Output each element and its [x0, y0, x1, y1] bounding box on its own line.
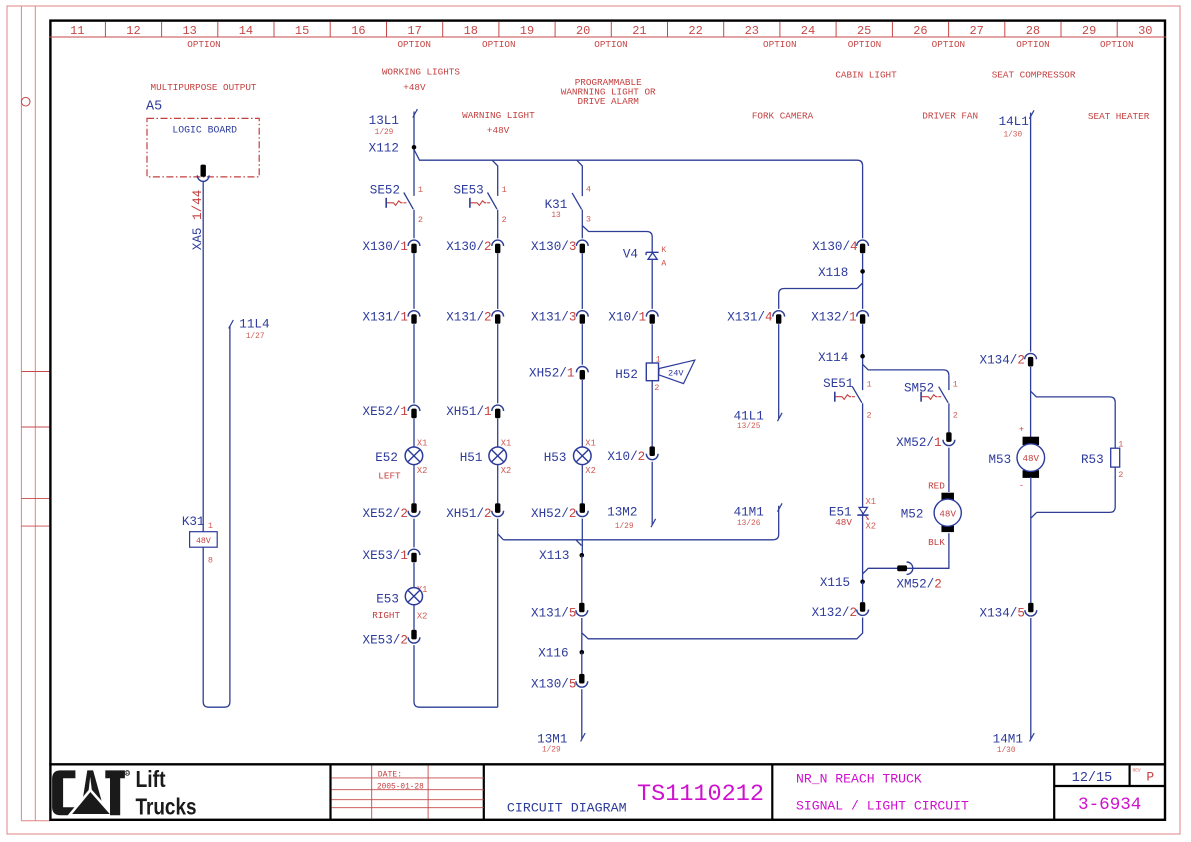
node X115 [860, 580, 865, 585]
logic board A5 outline [147, 118, 259, 176]
svg-text:X112: X112 [369, 142, 399, 156]
date table row line 2 [332, 789, 484, 791]
svg-text:A: A [661, 259, 667, 269]
svg-text:XM52/2: XM52/2 [896, 577, 941, 591]
fold mark 4 [21, 525, 49, 527]
wire R53 return [1037, 467, 1116, 512]
svg-text:19: 19 [520, 24, 534, 38]
svg-text:X1: X1 [501, 438, 512, 448]
wire X114 branch to SM52 [863, 364, 949, 375]
svg-text:14M1: 14M1 [993, 732, 1023, 746]
svg-text:27: 27 [969, 24, 983, 38]
title block top border [49, 763, 1166, 765]
registration hole [21, 97, 30, 106]
svg-text:23: 23 [745, 24, 759, 38]
svg-text:X113: X113 [539, 549, 569, 563]
svg-text:CIRCUIT DIAGRAM: CIRCUIT DIAGRAM [507, 800, 627, 815]
ruler base line [49, 36, 1166, 38]
svg-text:OPTION: OPTION [848, 39, 881, 50]
svg-text:RED: RED [928, 480, 945, 491]
svg-text:H51: H51 [460, 451, 483, 465]
svg-text:3-6934: 3-6934 [1078, 795, 1141, 815]
svg-text:XE52/1: XE52/1 [363, 405, 408, 419]
connector X130/4 [857, 240, 869, 253]
svg-text:R53: R53 [1081, 453, 1104, 467]
svg-text:22: 22 [688, 24, 702, 38]
node X113 [580, 553, 585, 558]
ruler column numbers 11-30 [70, 24, 1152, 38]
svg-text:OPTION: OPTION [1100, 39, 1133, 50]
wire X112 branch to cabin light column [414, 150, 863, 166]
connector XH52/2 [576, 503, 588, 516]
wire 13L1 down to SE52 [413, 112, 415, 196]
svg-text:1: 1 [418, 185, 423, 195]
wire X131/3 to XH52/1 [581, 324, 583, 365]
connector XM52/2 [897, 562, 913, 574]
wire XE52/1 to lamp E52 [413, 419, 415, 447]
motor M53 [1017, 437, 1045, 478]
wire X130/3 to X131/3 [581, 254, 583, 309]
wire X116 to X130/5 [581, 652, 583, 674]
svg-text:41L1: 41L1 [734, 410, 764, 424]
connector X132/1 [857, 311, 869, 324]
svg-text:X131/2: X131/2 [446, 311, 491, 325]
wire branch to R53 [1031, 391, 1116, 402]
svg-text:1/29: 1/29 [615, 523, 634, 531]
svg-text:NR_N REACH TRUCK: NR_N REACH TRUCK [796, 771, 922, 786]
svg-text:20: 20 [576, 24, 590, 38]
wire XE53/1 to lamp E53 [413, 563, 415, 588]
connector XE52/1 [408, 405, 420, 418]
wire M53 to X134/5 [1030, 477, 1032, 603]
svg-text:1/30: 1/30 [997, 747, 1016, 755]
svg-text:SIGNAL / LIGHT CIRCUIT: SIGNAL / LIGHT CIRCUIT [796, 799, 969, 814]
svg-text:X130/5: X130/5 [531, 678, 576, 692]
svg-text:XE53/1: XE53/1 [363, 549, 408, 563]
svg-text:29: 29 [1082, 24, 1096, 38]
wire 41M1 to X113 bus [773, 506, 779, 540]
wire XE52/2 to XE53/1 [413, 519, 415, 548]
net 13L1 start tick [413, 109, 418, 117]
connector XE52/2 [408, 503, 420, 516]
net 13M2 end tick [651, 519, 656, 527]
connector X134/2 [1025, 353, 1037, 366]
wire H52 to X10/2 [651, 381, 653, 447]
svg-text:12: 12 [126, 24, 140, 38]
svg-text:12/15: 12/15 [1072, 771, 1113, 786]
svg-text:E52: E52 [375, 451, 398, 465]
svg-text:24: 24 [801, 24, 815, 38]
connector XH52/1 [576, 367, 588, 380]
svg-text:X2: X2 [866, 522, 877, 532]
svg-text:41M1: 41M1 [734, 505, 764, 519]
svg-text:+: + [1019, 424, 1024, 434]
wire SE51 to E51 [862, 403, 864, 582]
svg-text:2: 2 [953, 411, 958, 421]
net 41L1 end tick [778, 413, 783, 421]
wire XE53/2 to bottom bus [414, 645, 498, 707]
svg-text:CABIN LIGHT: CABIN LIGHT [835, 70, 897, 81]
wire K31 to X130/3 [581, 210, 583, 239]
svg-text:2: 2 [867, 411, 872, 421]
svg-text:XM52/1: XM52/1 [896, 436, 941, 450]
svg-text:X131/4: X131/4 [727, 311, 772, 325]
wire X115 to X132/2 [862, 582, 864, 602]
wire X131/1 to XE52/1 [413, 324, 415, 403]
wire XH52/1 to lamp H53 [581, 380, 583, 447]
bus X113 horizontal [503, 539, 773, 541]
svg-text:OPTION: OPTION [594, 39, 627, 50]
svg-text:M52: M52 [901, 507, 924, 521]
wire XA5 to K31 coil [202, 181, 204, 531]
lamp E53 [405, 588, 422, 605]
svg-text:K: K [661, 245, 667, 255]
svg-text:48V: 48V [939, 508, 956, 519]
svg-text:16: 16 [351, 24, 365, 38]
svg-text:1/29: 1/29 [542, 747, 561, 755]
svg-text:K31: K31 [182, 515, 205, 529]
svg-text:K31: K31 [545, 198, 568, 212]
svg-text:BLK: BLK [928, 537, 945, 548]
svg-text:2: 2 [1118, 470, 1123, 480]
date table vertical line 2 [427, 766, 429, 819]
svg-text:13: 13 [182, 24, 196, 38]
svg-text:DRIVER FAN: DRIVER FAN [922, 111, 978, 122]
svg-text:1: 1 [208, 521, 213, 531]
connector X131/4 [773, 311, 785, 324]
margin bottom line [21, 820, 50, 822]
svg-text:X130/3: X130/3 [531, 240, 576, 254]
svg-text:Lift: Lift [136, 766, 166, 792]
svg-text:X134/2: X134/2 [980, 353, 1025, 367]
horn H52 [646, 360, 695, 384]
svg-text:XH51/2: XH51/2 [446, 507, 491, 521]
node X116 [580, 650, 585, 655]
svg-text:25: 25 [857, 24, 871, 38]
wire X131/2 to XH51/1 [497, 324, 499, 403]
title block divider after logo [329, 764, 331, 820]
svg-text:X2: X2 [417, 611, 428, 621]
svg-text:X2: X2 [501, 466, 512, 476]
wire X113 to X131/5 [581, 555, 583, 602]
connector X131/3 [576, 311, 588, 324]
svg-text:WARNING LIGHT: WARNING LIGHT [462, 110, 535, 121]
svg-text:X114: X114 [818, 351, 848, 365]
svg-text:SEAT HEATER: SEAT HEATER [1088, 111, 1150, 122]
svg-text:Trucks: Trucks [136, 793, 197, 819]
svg-text:X130/2: X130/2 [446, 240, 491, 254]
svg-text:X132/1: X132/1 [811, 311, 856, 325]
svg-text:SE51: SE51 [823, 377, 853, 391]
fold mark 3 [21, 497, 49, 499]
title block divider after drawing number [771, 764, 773, 820]
connector X10/2 [646, 446, 658, 459]
svg-text:X10/2: X10/2 [607, 450, 645, 464]
svg-text:OPTION: OPTION [482, 39, 515, 50]
switch SE52 [386, 193, 413, 210]
wire branch to K31 switch [577, 160, 583, 196]
connector XM52/1 [943, 432, 955, 445]
wire X10/2 to 13M2 [651, 462, 653, 525]
svg-text:1/30: 1/30 [1003, 132, 1022, 140]
svg-text:X131/3: X131/3 [531, 311, 576, 325]
svg-text:2: 2 [418, 215, 423, 225]
wire XH51/2 down to bottom bus [497, 519, 499, 708]
svg-text:OPTION: OPTION [187, 39, 220, 50]
connector X132/2 [857, 602, 869, 615]
svg-text:X1: X1 [866, 497, 877, 507]
title block divider rev box [1128, 764, 1130, 786]
connector X131/2 [492, 311, 504, 324]
wire K31 coil to 11L4 [203, 326, 230, 707]
svg-text:30: 30 [1138, 24, 1152, 38]
svg-text:X1: X1 [417, 438, 428, 448]
svg-text:R: R [126, 771, 130, 777]
connector XA5 pin and socket [197, 165, 209, 182]
wire SE52 to X130/1 [413, 210, 415, 239]
net 41M1 start tick [778, 503, 783, 511]
wire H51 to XH51/2 [497, 465, 499, 504]
svg-text:WORKING LIGHTS: WORKING LIGHTS [382, 67, 461, 78]
wire H53 to XH52/2 [581, 465, 583, 504]
connector XH51/2 [492, 503, 504, 516]
motor M52 [934, 493, 961, 532]
svg-text:28: 28 [1026, 24, 1040, 38]
wire X132/1 to X114 [862, 324, 864, 390]
wire R53 return junction [1031, 512, 1037, 518]
svg-text:24V: 24V [668, 368, 684, 378]
svg-text:X2: X2 [585, 466, 596, 476]
svg-text:14: 14 [239, 24, 253, 38]
net 14M1 end tick [1030, 733, 1035, 741]
wire X130/2 to X131/2 [497, 254, 499, 309]
svg-text:OPTION: OPTION [397, 39, 430, 50]
wire X131/4 to 41L1 [778, 324, 780, 418]
wire SE53 to X130/2 [497, 210, 499, 239]
wire V4 to X10/1 [651, 260, 653, 309]
svg-text:13L1: 13L1 [369, 114, 399, 128]
svg-text:SM52: SM52 [904, 382, 934, 396]
svg-text:X2: X2 [417, 466, 428, 476]
connector X131/5 [576, 603, 588, 616]
wire X134/5 to 14M1 [1030, 618, 1032, 739]
wire XM52/1 to M52 [948, 448, 950, 492]
connector XE53/1 [408, 549, 420, 562]
wire X118 branch to X131/4 [779, 289, 857, 309]
svg-text:13M2: 13M2 [607, 505, 637, 519]
svg-text:1: 1 [502, 185, 507, 195]
ruler tick marks [105, 22, 1117, 37]
wire 14L1 to X134/2 [1030, 113, 1032, 352]
wire X131/5 to X116 [581, 618, 583, 652]
wire E52 to XE52/2 [413, 465, 415, 504]
switch K31 contact [572, 193, 582, 209]
svg-text:X10/1: X10/1 [608, 311, 646, 325]
wire branch to SE53 [492, 160, 498, 196]
svg-text:1: 1 [953, 379, 958, 389]
svg-text:RIGHT: RIGHT [372, 610, 400, 621]
svg-text:X132/2: X132/2 [812, 606, 857, 620]
svg-text:E53: E53 [376, 592, 399, 606]
CAT Lift Trucks logo [52, 766, 196, 819]
OPTION labels under ruler [187, 39, 1133, 50]
bus chamfer at X113 column [576, 540, 582, 546]
net 11L4 wire start tick [229, 320, 234, 328]
svg-text:SEAT COMPRESSOR: SEAT COMPRESSOR [992, 70, 1076, 81]
relay coil K31 [190, 532, 218, 548]
connector XH51/1 [492, 405, 504, 418]
svg-text:XE52/2: XE52/2 [363, 507, 408, 521]
svg-text:4: 4 [586, 185, 591, 195]
svg-text:18: 18 [464, 24, 478, 38]
svg-text:FORK CAMERA: FORK CAMERA [752, 111, 814, 122]
svg-text:15: 15 [295, 24, 309, 38]
svg-text:MULTIPURPOSE OUTPUT: MULTIPURPOSE OUTPUT [150, 82, 256, 93]
svg-text:13/26: 13/26 [737, 520, 761, 528]
wire branch to X113 bus [498, 534, 504, 540]
svg-text:OPTION: OPTION [1016, 39, 1049, 50]
lamp H51 [489, 447, 507, 465]
svg-text:13/25: 13/25 [737, 423, 761, 431]
svg-text:11L4: 11L4 [239, 317, 269, 331]
inner margin line 2 [34, 6, 36, 821]
switch SE53 [470, 193, 497, 210]
wire branch X116 to X132/2 [582, 618, 863, 639]
switch SM52 [921, 387, 948, 403]
wire X10/1 to H52 [651, 324, 653, 363]
svg-text:48V: 48V [1023, 453, 1040, 464]
connector X130/3 [576, 240, 588, 253]
svg-text:13: 13 [551, 212, 561, 220]
svg-text:2005-01-28: 2005-01-28 [377, 784, 424, 792]
svg-text:X116: X116 [538, 647, 568, 661]
connector X10/1 [646, 311, 658, 324]
diode V4 [646, 252, 659, 259]
connector X130/1 [408, 240, 420, 253]
wire branch K31 to V4 [582, 226, 652, 252]
connector X130/2 [492, 240, 504, 253]
svg-text:LOGIC BOARD: LOGIC BOARD [172, 125, 237, 136]
wire X134/2 to M53 [1030, 367, 1032, 438]
svg-text:OPTION: OPTION [763, 39, 796, 50]
wire E53 to XE53/2 [413, 605, 415, 630]
svg-text:A5: A5 [146, 100, 162, 115]
lamp H53 [574, 447, 592, 465]
svg-text:H52: H52 [615, 368, 638, 382]
wire SM52 to XM52/1 [948, 403, 950, 432]
svg-text:XE53/2: XE53/2 [363, 634, 408, 648]
svg-text:XH51/1: XH51/1 [446, 405, 491, 419]
svg-text:X131/5: X131/5 [531, 606, 576, 620]
svg-text:XH52/2: XH52/2 [531, 507, 576, 521]
svg-text:X115: X115 [820, 576, 850, 590]
svg-text:OPTION: OPTION [932, 39, 965, 50]
svg-text:DRIVE ALARM: DRIVE ALARM [578, 96, 639, 107]
connector X134/5 [1025, 603, 1037, 616]
date table vertical line 1 [371, 766, 373, 819]
svg-text:26: 26 [913, 24, 927, 38]
svg-text:X134/5: X134/5 [980, 606, 1025, 620]
svg-text:X130/4: X130/4 [812, 240, 857, 254]
svg-text:X1: X1 [585, 438, 596, 448]
svg-text:1/27: 1/27 [246, 333, 265, 341]
wire X130/4 to X118 [862, 254, 864, 309]
svg-text:P: P [1146, 769, 1154, 784]
svg-text:X131/1: X131/1 [363, 311, 408, 325]
svg-text:8: 8 [208, 556, 213, 566]
connector X130/5 [576, 674, 588, 687]
connector XE53/2 [408, 630, 420, 643]
label PROGRAMMABLE WANRNING LIGHT OR DRIVE ALARM [561, 77, 656, 107]
svg-text:14L1: 14L1 [999, 115, 1029, 129]
switch SE51 [835, 387, 862, 403]
resistor R53 [1111, 448, 1120, 467]
node X112 [412, 145, 417, 150]
svg-text:11: 11 [70, 24, 84, 38]
svg-text:3: 3 [586, 214, 591, 224]
svg-text:X130/1: X130/1 [363, 240, 408, 254]
svg-text:+48V: +48V [487, 125, 510, 136]
svg-text:-: - [1019, 480, 1024, 490]
wire X118 chamfer to fork camera branch [857, 283, 863, 289]
title block divider after date box [483, 764, 485, 820]
date table row line 1 [332, 777, 484, 779]
svg-text:SE52: SE52 [370, 183, 400, 197]
wire X130/5 to 13M1 [581, 689, 583, 738]
svg-text:2: 2 [502, 215, 507, 225]
date table row line 4 [332, 807, 484, 809]
inner margin line 1 [20, 6, 22, 821]
wire cabin light feed down [862, 166, 864, 239]
wire to R53 [1114, 402, 1116, 448]
net 13M1 end tick [581, 733, 586, 741]
svg-text:H53: H53 [544, 451, 567, 465]
fold mark 1 [21, 371, 49, 373]
svg-text:M53: M53 [989, 453, 1012, 467]
svg-text:XH52/1: XH52/1 [529, 366, 574, 380]
date table row line 3 [332, 799, 484, 801]
svg-text:17: 17 [407, 24, 421, 38]
svg-text:1: 1 [867, 379, 872, 389]
lamp E52 [405, 447, 423, 465]
svg-text:X118: X118 [818, 266, 848, 280]
connector X131/1 [408, 311, 420, 324]
svg-text:1/29: 1/29 [375, 129, 394, 137]
net 14L1 start tick [1029, 110, 1034, 118]
node X114 [860, 354, 865, 359]
svg-text:21: 21 [632, 24, 646, 38]
svg-text:V4: V4 [623, 248, 638, 262]
wire XH52/2 to X113 [581, 519, 583, 556]
wire X130/1 to X131/1 [413, 254, 415, 309]
svg-text:TS1110212: TS1110212 [637, 781, 764, 808]
fold mark 2 [21, 426, 49, 428]
title block divider before page box [1053, 764, 1055, 820]
svg-text:LEFT: LEFT [378, 470, 401, 481]
wire SM52 down [948, 375, 950, 390]
svg-text:DATE:: DATE: [378, 770, 402, 779]
wire M52 to XM52/2 [863, 533, 949, 574]
svg-text:+48V: +48V [403, 82, 426, 93]
svg-text:2: 2 [654, 383, 659, 393]
svg-text:REV: REV [1133, 767, 1141, 773]
led E51 [857, 507, 869, 520]
svg-text:48V: 48V [835, 517, 852, 528]
svg-text:48V: 48V [196, 537, 211, 546]
svg-text:13M1: 13M1 [537, 733, 567, 747]
node X118 [860, 269, 865, 274]
svg-text:SE53: SE53 [453, 183, 483, 197]
